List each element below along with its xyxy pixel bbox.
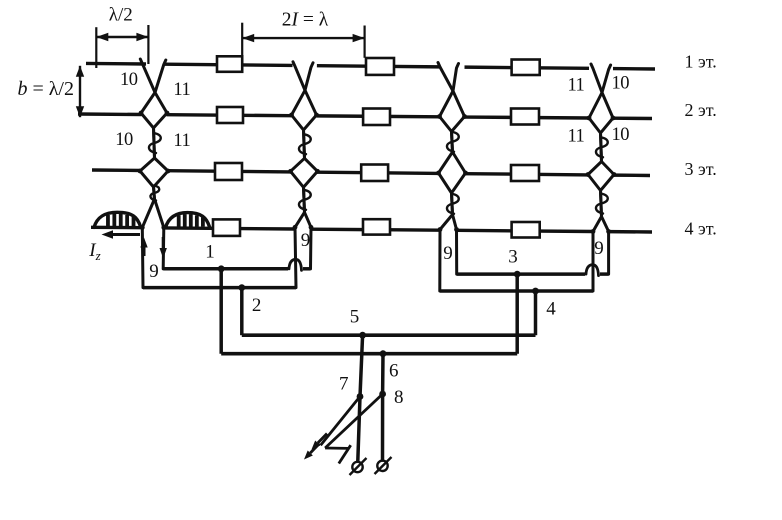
svg-text:b = λ/2: b = λ/2 — [17, 78, 74, 100]
svg-text:11: 11 — [173, 80, 190, 100]
svg-text:3: 3 — [508, 246, 518, 267]
svg-text:2 эт.: 2 эт. — [685, 100, 717, 120]
svg-text:11: 11 — [567, 126, 584, 146]
svg-text:10: 10 — [612, 74, 630, 94]
svg-text:4: 4 — [546, 298, 556, 319]
svg-text:5: 5 — [350, 307, 360, 328]
svg-text:11: 11 — [567, 76, 584, 96]
svg-text:10: 10 — [612, 125, 630, 145]
svg-text:2: 2 — [252, 295, 262, 316]
svg-text:10: 10 — [120, 70, 138, 90]
svg-text:9: 9 — [301, 230, 311, 251]
svg-text:9: 9 — [443, 243, 453, 264]
svg-text:10: 10 — [115, 130, 133, 150]
svg-text:4 эт.: 4 эт. — [685, 218, 717, 238]
svg-text:1 эт.: 1 эт. — [685, 51, 717, 71]
svg-text:2I = λ: 2I = λ — [282, 10, 329, 31]
svg-text:6: 6 — [389, 360, 399, 381]
svg-text:3 эт.: 3 эт. — [685, 159, 717, 179]
svg-text:9: 9 — [594, 238, 604, 259]
svg-text:λ/2: λ/2 — [109, 5, 133, 26]
svg-text:1: 1 — [205, 242, 215, 263]
svg-text:7: 7 — [339, 374, 349, 395]
svg-text:11: 11 — [173, 131, 190, 151]
svg-text:9: 9 — [149, 261, 159, 282]
svg-text:8: 8 — [394, 387, 404, 408]
